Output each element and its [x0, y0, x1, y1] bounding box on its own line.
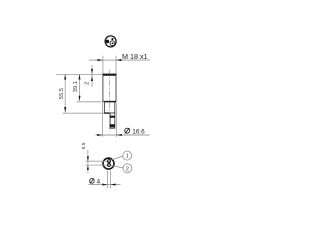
svg-text:2: 2 — [85, 82, 91, 85]
dim 2 arrow up — [91, 76, 93, 81]
dim 55.5 line — [64, 74, 66, 112]
svg-text:5.5: 5.5 — [81, 142, 87, 149]
dia 16.6 arrow left — [97, 134, 102, 136]
dia 4 extension line right — [110, 171, 112, 189]
connector icon tiny top dot — [111, 38, 113, 40]
leader to balloon 1 — [110, 156, 122, 160]
extension line right of thread — [115, 56, 117, 74]
connector tip bottom band — [110, 124, 115, 127]
dia 4 arrow left-pointing — [111, 184, 116, 186]
connector tip thread band — [110, 116, 115, 118]
mid shoulder dark edge — [104, 112, 109, 114]
svg-text:4: 4 — [97, 178, 101, 185]
dia 4 dim line — [89, 184, 121, 186]
connector icon small circle — [110, 41, 115, 46]
leader to balloon 2 — [110, 165, 122, 168]
top extension line for left dims — [57, 73, 103, 75]
balloon 2 — [123, 164, 132, 173]
end view circle — [103, 158, 114, 169]
dim 55.5 extension line — [63, 112, 105, 114]
connector icon pin dot (filled) — [106, 40, 110, 44]
dia 16.6 extension line left — [102, 103, 104, 137]
dia 16.6 extension line right — [115, 103, 117, 137]
dimension line M18 (under label) — [89, 59, 150, 61]
dim 39.1 extension line — [77, 101, 105, 103]
dim 55.5 arrow down — [64, 107, 66, 113]
dim 5.5 extension line bottom — [86, 164, 108, 166]
connector icon small circle center dot — [112, 42, 114, 44]
dim 2 line — [91, 65, 93, 87]
balloon 1 — [123, 151, 132, 160]
svg-text:1: 1 — [126, 154, 129, 160]
dim 5.5 arrow up — [87, 165, 89, 170]
dim 5.5 extension line top — [86, 160, 108, 162]
dim 55.5 arrow up — [64, 74, 66, 79]
dia 16.6 arrow right — [116, 134, 121, 136]
svg-text:16.6: 16.6 — [132, 128, 145, 135]
body bottom edge — [103, 101, 117, 103]
svg-text:2: 2 — [126, 166, 129, 172]
dia 16.6 symbol — [125, 128, 130, 133]
dim 39.1 line — [79, 74, 81, 101]
dia 4 extension line left — [106, 171, 108, 189]
dim 39.1 arrow down — [78, 96, 80, 101]
dia 16.6 dim line — [96, 134, 150, 136]
svg-text:55.5: 55.5 — [59, 88, 65, 99]
sensing face band (2mm) — [103, 74, 117, 76]
dim 5.5 arrow down — [87, 156, 89, 161]
arrow M18 left — [98, 59, 103, 61]
centerline — [109, 70, 111, 132]
svg-text:39.1: 39.1 — [73, 81, 79, 92]
extension line left of thread — [102, 56, 104, 74]
sensor body — [103, 74, 116, 102]
connector face icon outer circle — [105, 36, 116, 47]
pin 1 — [108, 160, 111, 163]
dia 4 arrow right-pointing — [102, 184, 107, 186]
dim 39.1 arrow up — [78, 74, 80, 79]
pin 2 — [108, 163, 111, 166]
mid section — [104, 102, 114, 114]
dia 4 symbol — [90, 179, 95, 184]
dim 2 arrow down — [91, 69, 93, 74]
dim 5.5 line — [87, 150, 89, 173]
connector tip — [110, 113, 115, 128]
arrow M18 right — [116, 59, 121, 61]
